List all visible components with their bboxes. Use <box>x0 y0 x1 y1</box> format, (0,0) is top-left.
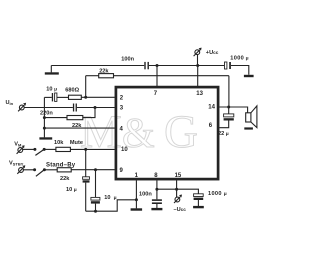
capacitor 22u (bootstrap) <box>224 114 234 121</box>
VM terminal <box>17 145 25 154</box>
wire top supply bus mid segment <box>149 65 225 67</box>
wire pin 8 down <box>156 180 158 199</box>
wire negative bus below box <box>157 189 199 194</box>
wire pin 15 to -Ucc <box>176 180 178 197</box>
pin numbers <box>120 91 216 179</box>
switch S1 (mute) <box>33 148 45 156</box>
capacitor 1000u (bottom) <box>194 194 204 200</box>
svg-text:680Ω: 680Ω <box>65 87 79 93</box>
node junction standby/cap <box>94 168 97 171</box>
wire 10k to pin 10 <box>70 148 114 150</box>
node junction pin14 <box>227 106 230 109</box>
resistor 10k (mute) <box>56 147 71 151</box>
svg-text:22k: 22k <box>72 123 82 129</box>
node junction pin13/bus <box>196 64 199 67</box>
svg-text:VSTBY: VSTBY <box>9 161 24 167</box>
resistor 22k (feedback) <box>99 74 114 78</box>
svg-text:22 μ: 22 μ <box>218 131 229 137</box>
wire pin2 row rail to cap <box>44 96 51 98</box>
ground (1000u bottom) <box>193 206 204 208</box>
wire 1000u to ground <box>197 200 199 206</box>
wire pin 7 <box>156 66 158 87</box>
wire standby cap branch lower <box>95 204 97 212</box>
wire pin 4 row <box>44 127 114 129</box>
svg-text:10 μ: 10 μ <box>46 87 57 93</box>
node junction pin1/return <box>135 198 138 201</box>
wire 22k up to pin3 row <box>83 108 95 118</box>
wire rail to 22k input resistor <box>44 117 67 119</box>
wire switch to 22k standby <box>44 169 57 171</box>
wire bottom return line <box>86 200 137 211</box>
ground (speaker) <box>244 127 253 129</box>
node junction rail/22k row <box>43 116 46 119</box>
node junction rail/pin4 row <box>43 127 46 130</box>
wire top supply bus left segment <box>51 65 144 67</box>
speaker LS1 <box>246 106 257 128</box>
wire mute cap branch lower <box>85 183 87 212</box>
+Ucc terminal <box>194 48 202 66</box>
svg-text:G: G <box>164 106 198 158</box>
capacitor 1000u (top) <box>225 62 231 69</box>
wire Uin to 220n <box>24 107 73 109</box>
node junction bottom return <box>94 210 97 213</box>
IC U1 box <box>116 87 218 179</box>
node junction pin8/bus <box>155 188 158 191</box>
capacitor 10u (input, pin2 leg) <box>52 93 57 101</box>
wire top supply bus right segment <box>231 66 249 75</box>
wire 220n to pin 3 <box>77 107 115 109</box>
wire VSTBY to switch <box>23 169 34 171</box>
node junction pin7/bus <box>156 64 159 67</box>
ground (top-left) <box>45 66 59 75</box>
-Ucc terminal <box>174 195 182 204</box>
resistor 22k (stand-by) <box>57 168 71 172</box>
svg-text:15: 15 <box>175 173 182 179</box>
svg-text:100n: 100n <box>121 57 134 63</box>
wire pin 13 <box>197 66 199 87</box>
node junction pin15/bus <box>175 188 178 191</box>
wire switch to 10k <box>44 148 56 150</box>
capacitor 10u (mute) <box>83 177 90 183</box>
svg-text:13: 13 <box>196 91 203 97</box>
wire 680 to pin 2 <box>81 96 114 98</box>
wire pin 1 down <box>135 180 137 208</box>
wire ground rail <box>43 97 45 137</box>
watermark M&G <box>80 106 198 158</box>
svg-text:Stand–By: Stand–By <box>46 162 76 168</box>
svg-text:220n: 220n <box>40 111 53 117</box>
node junction pin2 <box>84 96 87 99</box>
svg-text:1000 μ: 1000 μ <box>208 191 227 197</box>
wire VM to switch <box>23 148 35 150</box>
svg-text:10k: 10k <box>54 140 64 146</box>
wire feedback bus <box>86 76 229 107</box>
svg-text:VM: VM <box>14 142 22 148</box>
VSTBY terminal <box>17 165 25 174</box>
svg-text:22k: 22k <box>60 176 70 182</box>
svg-text:Uin: Uin <box>6 100 14 106</box>
wire standby cap branch upper <box>95 170 97 198</box>
svg-text:14: 14 <box>208 105 215 111</box>
wire cap to 680 <box>57 96 69 98</box>
wire pin14 to 22u <box>228 107 230 114</box>
svg-text:10: 10 <box>121 147 128 153</box>
ground (100n) <box>151 208 162 210</box>
ground (input rail) <box>39 137 52 139</box>
switch S2 (stand-by) <box>33 168 46 176</box>
wire mute cap branch upper <box>85 149 87 176</box>
wire 22k to pin 9 <box>71 169 114 171</box>
svg-text:1000 μ: 1000 μ <box>230 56 249 62</box>
resistor 22k (input bias) <box>67 116 83 120</box>
node junction mute/cap <box>84 148 87 151</box>
svg-text:Mute: Mute <box>70 140 83 146</box>
wire feedback drop to pin2 <box>85 76 87 98</box>
ground (top-right) <box>244 75 254 77</box>
node junction pin3/22k <box>94 106 97 109</box>
capacitor 10u (stand-by) <box>91 197 100 203</box>
wire 100n to ground <box>156 204 158 208</box>
resistor 680R <box>69 95 82 99</box>
svg-text:100n: 100n <box>139 192 152 198</box>
capacitor 100n (pin 8) <box>152 199 162 204</box>
ground (pin 1) <box>131 208 143 210</box>
capacitor 100n (top) <box>144 62 149 69</box>
wire pin 14 output <box>219 107 247 113</box>
svg-text:10 μ: 10 μ <box>66 187 77 193</box>
svg-text:10 μ: 10 μ <box>104 195 116 201</box>
Uin terminal <box>18 103 26 112</box>
capacitor 220n <box>73 104 77 112</box>
svg-text:22k: 22k <box>99 69 109 75</box>
wire 22u to pin 6 <box>219 121 228 128</box>
